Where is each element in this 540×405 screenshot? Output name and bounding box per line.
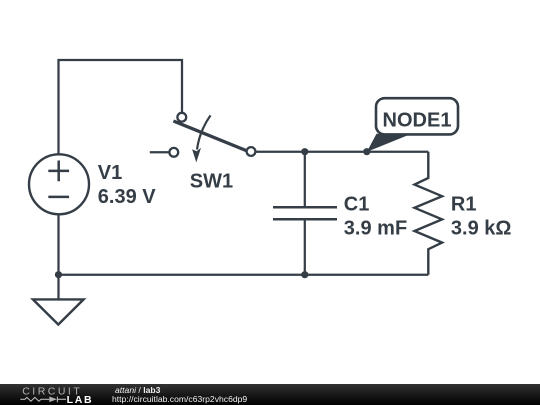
NODE1 flag — [367, 98, 458, 152]
node dot cap top — [301, 148, 308, 155]
wire V1 bottom — [57, 214, 59, 274]
node dot NODE1 — [363, 148, 370, 155]
wire switch to R1 top — [255, 151, 428, 153]
circuitlab logo — [0, 384, 100, 405]
voltage source V1 — [29, 154, 89, 214]
wire V1 top to switch top — [59, 60, 183, 154]
resistor R1 — [415, 152, 443, 275]
capacitor C1 — [273, 152, 337, 275]
node dot V1 bottom — [55, 271, 62, 278]
ground — [33, 275, 84, 325]
wire bottom rail — [59, 274, 429, 276]
node dot cap bottom — [301, 271, 308, 278]
switch SW1 — [150, 113, 256, 163]
footer bar — [0, 384, 540, 405]
